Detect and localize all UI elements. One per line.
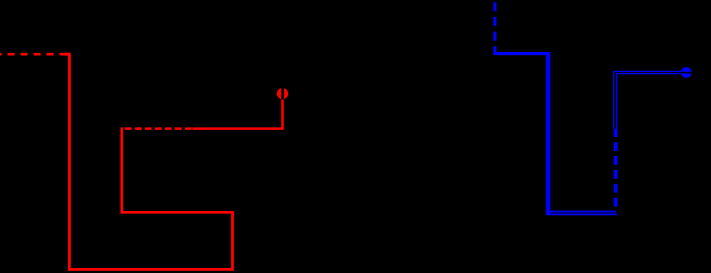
blue trace: dashed vertical rise at x=615.6 [614,129,618,207]
red trace: solid part of upper horizontal + corner up [192,99,282,128]
blue trace: hollow double-line elbow, outer edge [614,71,683,128]
red trace: vertical rise at x=121.8 [120,127,123,213]
blue trace: end marker circle [681,67,692,78]
blue trace: black slit through marker [680,72,692,74]
red trace: end marker circle [277,88,288,99]
red trace: corner + long vertical drop at x=69 [64,54,69,271]
red trace: bottom horizontal segment [68,268,234,271]
blue trace: lower horizontal pair, lower line [546,213,617,215]
blue trace: top horizontal segment [493,52,550,55]
red trace: dashed lead-in segment (top left) [0,53,67,56]
red trace: right vertical rise at x=232.5 [231,211,234,271]
red trace: middle horizontal segment (leftward) [121,211,234,214]
blue trace: hollow double-line elbow, inner edge [617,74,683,129]
blue trace: long vertical drop at x=548 [546,52,550,214]
red trace: black slit through marker [281,87,284,99]
blue trace: lower horizontal pair, upper line [546,211,616,213]
blue trace: dashed lead-in vertical (top) [493,2,496,52]
red trace: dashed part of upper horizontal segment [125,127,193,130]
